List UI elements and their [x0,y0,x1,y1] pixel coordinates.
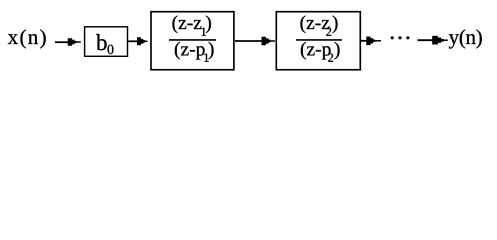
arrowhead W5 [432,36,448,45]
gain block b0 [85,27,128,57]
wire W2 [127,40,138,42]
node y(n) [449,29,482,48]
ellipsis dots [391,36,410,39]
label U2 numerator (z-z2) [300,15,337,35]
label U1 denominator (z-p1) [175,42,214,62]
section block U2 [276,12,360,70]
fraction bar U2 [296,39,342,41]
label U1 numerator (z-z1) [172,15,210,35]
node x(n) [8,29,46,48]
wire W1 [55,41,69,43]
wire W5 [418,39,435,41]
wire W4 [360,40,368,42]
arrowhead W1 [68,38,81,46]
arrowhead W3 [262,37,276,45]
arrowhead W4 [366,37,381,46]
fraction bar U1 [169,39,216,41]
wire W3 [235,40,264,42]
section block U1 [151,12,234,70]
label b0 [96,34,113,54]
label U2 denominator (z-p2) [301,42,340,62]
arrowhead W2 [137,37,148,45]
